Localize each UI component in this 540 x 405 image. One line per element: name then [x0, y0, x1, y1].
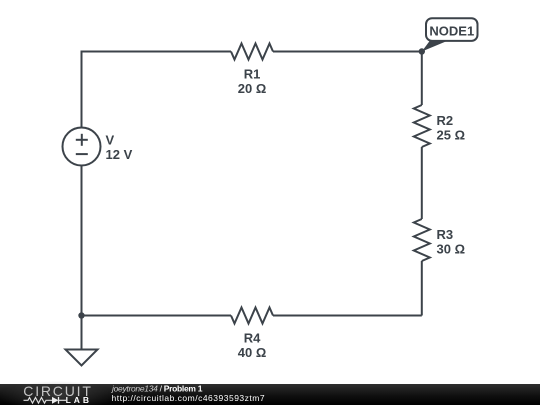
voltage source V1 body: [63, 128, 101, 166]
wire from junction down to ground symbol: [81, 316, 83, 350]
footer bar: [0, 381, 540, 405]
svg-text:V: V: [106, 132, 115, 147]
resistor R1: [231, 44, 273, 60]
wire from V1 top terminal up to top-left corner: [81, 52, 83, 129]
node NODE1 junction dot: [419, 48, 425, 54]
node NODE1 label box: [426, 18, 478, 41]
resistor R4: [231, 308, 273, 324]
svg-text:R2: R2: [437, 113, 454, 128]
resistor R3: [414, 219, 430, 261]
svg-text:R4: R4: [244, 330, 261, 345]
wire from V1 bottom terminal down to ground junction: [81, 166, 83, 316]
V1 plus sign: [76, 134, 88, 146]
svg-text:LAB: LAB: [66, 395, 92, 405]
svg-text:R3: R3: [437, 227, 454, 242]
svg-text:R1: R1: [244, 66, 261, 81]
wire right vertical segment from R2 bottom lead to R3 top lead: [421, 147, 423, 219]
wire bottom horizontal segment from corner to R4 right lead: [273, 315, 422, 317]
svg-text:NODE1: NODE1: [429, 24, 474, 39]
svg-text:25 Ω: 25 Ω: [437, 128, 466, 143]
svg-text:20 Ω: 20 Ω: [238, 81, 267, 96]
svg-text:30 Ω: 30 Ω: [437, 242, 466, 257]
V1 minus sign: [76, 153, 88, 155]
wire right vertical segment from R3 bottom lead to bottom-right corner: [421, 261, 423, 316]
node NODE1 label pointer: [422, 41, 447, 52]
ground: [66, 350, 98, 366]
resistor R2: [414, 105, 430, 147]
footer logo diode symbol: [52, 397, 66, 404]
wire bottom horizontal segment from R4 left lead to ground junction: [82, 315, 232, 317]
wire top horizontal segment from corner to R1 left lead: [81, 51, 232, 53]
footer logo resistor zigzag symbol: [24, 398, 53, 404]
svg-text:joeytrone134 / Problem 1: joeytrone134 / Problem 1: [111, 383, 203, 393]
wire top horizontal segment from R1 right lead to node NODE1: [273, 51, 422, 53]
junction dot at bottom-left ground node: [78, 312, 84, 318]
svg-text:http://circuitlab.com/c4639359: http://circuitlab.com/c46393593ztm7: [112, 393, 266, 403]
svg-text:40 Ω: 40 Ω: [238, 345, 267, 360]
svg-text:12 V: 12 V: [106, 147, 133, 162]
wire right vertical segment from NODE1 to R2 top lead: [421, 52, 423, 106]
